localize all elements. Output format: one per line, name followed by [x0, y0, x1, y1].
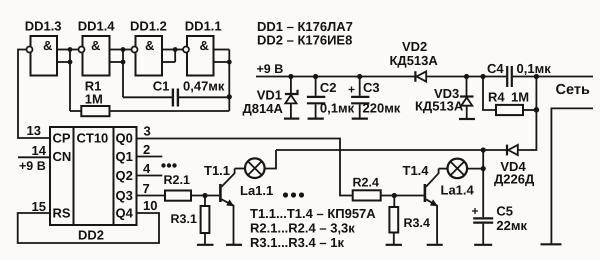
svg-text:1М: 1М — [85, 92, 103, 107]
wire lamp La1.1 right to rail — [265, 150, 276, 169]
svg-text:VD2: VD2 — [402, 39, 427, 54]
junction dot La1.4 node — [481, 166, 486, 171]
svg-text:CN: CN — [53, 149, 72, 164]
ground C5 — [474, 244, 492, 246]
resistor R1 — [81, 106, 109, 116]
svg-text:R3.1...R3.4 – 1к: R3.1...R3.4 – 1к — [250, 235, 344, 250]
wire R4 left to rail — [483, 77, 496, 111]
wire tie to DD1.4 output — [70, 49, 79, 51]
svg-text:Q4: Q4 — [116, 206, 134, 221]
svg-text:&: & — [145, 38, 154, 53]
wire CN pin 14 stub — [18, 156, 50, 158]
gate DD1.2 — [132, 36, 163, 76]
wire T1.4 collector up — [438, 169, 440, 174]
resistor R3.4 — [389, 207, 398, 233]
svg-text:La1.1: La1.1 — [240, 183, 273, 198]
junction dot VD4 branch — [534, 74, 539, 79]
svg-text:Q1: Q1 — [116, 149, 133, 164]
junction dot C4-R4 — [480, 74, 485, 79]
svg-text:КД513А: КД513А — [415, 99, 464, 114]
svg-text:&: & — [200, 38, 209, 53]
wire R3.1 to ground — [204, 233, 206, 244]
svg-text:DD1.4: DD1.4 — [78, 19, 116, 34]
wire mains terminal — [551, 108, 593, 243]
svg-text:+: + — [348, 83, 355, 97]
transistor T1.4 — [425, 173, 439, 244]
ellipsis dots after Q1 Q2 — [161, 163, 176, 167]
gate DD1.4 — [79, 36, 110, 76]
ground VD1 — [284, 117, 299, 119]
wire tie to DD1.1 output — [175, 49, 183, 51]
svg-text:15: 15 — [32, 199, 46, 214]
svg-text:T1.4: T1.4 — [403, 163, 430, 178]
wire DD1.2 right stubs tie — [162, 50, 175, 63]
svg-text:0,1мк: 0,1мк — [517, 61, 552, 76]
wire +9V rail — [256, 76, 593, 78]
wire VD4 right up to R4 node — [518, 77, 537, 151]
svg-text:+9 В: +9 В — [19, 159, 46, 173]
svg-text:14: 14 — [32, 143, 47, 158]
wire tie to DD1.2 output — [123, 49, 132, 51]
svg-text:22мк: 22мк — [496, 218, 527, 233]
ground VD3 — [459, 118, 475, 120]
junction dot rail-VD4 — [481, 147, 486, 152]
junction dot DD1.1 tie — [227, 60, 232, 65]
svg-text:1M: 1M — [511, 89, 529, 104]
svg-text:4: 4 — [143, 161, 151, 176]
wire RS to Q4 loop — [18, 213, 159, 243]
wire lamp supply rail — [276, 149, 483, 151]
svg-text:RS: RS — [53, 206, 71, 221]
gate DD1.3 — [27, 36, 58, 76]
svg-text:DD2 – К176ИЕ8: DD2 – К176ИЕ8 — [257, 33, 352, 48]
wire DD1.3 output to counter CP — [18, 50, 50, 139]
resistor R2.4 — [353, 190, 381, 200]
junction dot C1 right — [227, 94, 232, 99]
wire Q1 pin 2 stub — [137, 156, 163, 158]
mains terminal bar — [541, 243, 562, 245]
svg-text:C1: C1 — [153, 78, 170, 93]
ground C3 — [352, 117, 368, 119]
svg-text:+9 В: +9 В — [257, 62, 284, 76]
svg-text:R2.1: R2.1 — [164, 173, 190, 187]
svg-text:Д226Д: Д226Д — [494, 172, 535, 187]
transistor T1.1 — [220, 173, 234, 244]
wire R2.4 to T1.4 base — [381, 195, 424, 197]
svg-text:13: 13 — [27, 123, 41, 138]
svg-text:CP: CP — [53, 131, 71, 146]
wire R3.4 to ground — [393, 233, 395, 245]
svg-text:DD1.1: DD1.1 — [185, 19, 222, 34]
wire C1 right — [179, 96, 229, 98]
lamp La1.4 — [448, 159, 468, 179]
wire R2.1 to T1.1 base — [191, 195, 219, 197]
wire Q0 pin 3 to stage 4 — [137, 139, 353, 196]
junction dot VD3 — [464, 74, 469, 79]
lamp La1.1 — [245, 158, 265, 178]
diode VD4 — [507, 145, 518, 156]
wire VD4 left — [483, 149, 506, 151]
wire lamp La1.4 left — [439, 168, 448, 170]
svg-text:Q2: Q2 — [116, 168, 133, 183]
wire DD1.1 right stubs tie — [214, 50, 230, 111]
wire C5 to ground — [482, 224, 484, 245]
capacitor C2 — [307, 77, 325, 118]
capacitor C4 — [507, 66, 512, 87]
svg-text:10: 10 — [143, 198, 157, 213]
wire R1 left — [70, 110, 81, 112]
svg-text:+: + — [472, 204, 479, 218]
wire T1.1 collector up — [234, 169, 236, 174]
counter DD2 box CT10 — [50, 127, 137, 225]
wire node to R3.4 — [393, 196, 395, 208]
svg-text:T1.1: T1.1 — [204, 163, 230, 178]
capacitor C3 — [351, 77, 369, 118]
svg-text:R3.4: R3.4 — [404, 216, 430, 230]
resistor R3.1 — [201, 206, 210, 233]
diode VD3 — [460, 77, 474, 119]
svg-text:7: 7 — [143, 181, 150, 196]
svg-text:КД513А: КД513А — [390, 53, 439, 68]
svg-text:R2.4: R2.4 — [353, 175, 379, 189]
ground T1.1 emitter — [226, 244, 242, 246]
wire lamp La1.1 left — [235, 168, 245, 170]
svg-text:DD2: DD2 — [78, 228, 104, 243]
junction dot gate node 4 — [392, 193, 397, 198]
svg-text:La1.4: La1.4 — [441, 182, 475, 197]
svg-text:&: & — [91, 38, 100, 53]
resistor R2.1 — [165, 191, 191, 201]
resistor R4 — [496, 105, 523, 115]
svg-text:Т1.1...Т1.4 – КП957А: Т1.1...Т1.4 – КП957А — [250, 206, 376, 221]
wire DD1.3 right stubs tie — [57, 50, 70, 112]
wire R4 right — [523, 109, 536, 111]
svg-text:0,47мк: 0,47мк — [183, 78, 225, 93]
svg-text:R3.1: R3.1 — [171, 212, 197, 226]
diode VD2 — [415, 71, 426, 82]
svg-text:Q0: Q0 — [116, 131, 133, 146]
capacitor C5 — [473, 218, 493, 222]
svg-text:&: & — [43, 38, 52, 53]
wire lamp La1.4 right — [467, 168, 483, 170]
ellipsis dots between stages — [283, 192, 304, 197]
junction dots DD1.4 tie — [121, 47, 126, 64]
wire node to R3.1 — [204, 196, 206, 207]
ground R3.4 — [386, 244, 402, 246]
junction dot gate node 1 — [202, 193, 207, 198]
svg-text:C2: C2 — [320, 80, 337, 95]
svg-text:3: 3 — [144, 124, 151, 139]
junction dot VD1 — [288, 74, 293, 79]
svg-text:Q3: Q3 — [116, 188, 133, 203]
capacitor C1 — [173, 89, 178, 107]
junction dot C2 — [313, 74, 318, 79]
svg-text:DD1.2: DD1.2 — [130, 19, 167, 34]
svg-text:Д814А: Д814А — [243, 101, 284, 116]
junction dot DD1.2 tie — [173, 47, 178, 52]
svg-text:C3: C3 — [363, 80, 380, 95]
wire C1 left — [123, 96, 172, 98]
junction dot R4-VD4 — [534, 107, 540, 113]
junction dot C3 — [357, 74, 362, 79]
gate DD1.1 — [183, 36, 214, 76]
svg-text:R2.1...R2.4 – 3,3к: R2.1...R2.4 – 3,3к — [250, 220, 355, 235]
junction dots DD1.3 tie — [68, 47, 73, 64]
svg-text:C4: C4 — [487, 61, 504, 76]
wire Q3 pin 7 to R2.1 — [137, 195, 166, 197]
wire R1 right to C1 node — [110, 110, 230, 112]
ground R3.1 — [197, 244, 214, 246]
wire node down to C5 — [482, 150, 484, 217]
svg-text:CT10: CT10 — [77, 131, 109, 146]
svg-text:Сеть: Сеть — [556, 82, 590, 98]
wire DD1.4 right stubs tie — [110, 50, 124, 98]
svg-text:2: 2 — [143, 142, 150, 157]
wire Q2 pin 4 stub — [137, 175, 163, 177]
svg-text:DD1.3: DD1.3 — [25, 19, 62, 34]
zener VD1 — [285, 77, 298, 118]
svg-text:C5: C5 — [496, 204, 513, 219]
ground T1.4 emitter — [427, 244, 443, 246]
ground C2 — [308, 117, 324, 119]
svg-text:R4: R4 — [488, 89, 505, 104]
